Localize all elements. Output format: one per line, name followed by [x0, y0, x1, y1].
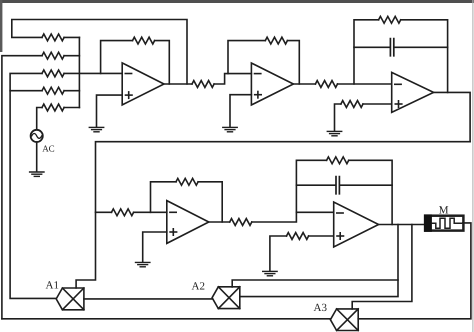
wire: U4 input lead [96, 211, 112, 213]
wire: AC source to R5 [37, 108, 42, 130]
wire: Rg5 to ground [270, 236, 287, 271]
resistor R3 [42, 70, 64, 77]
wire: U3 non-inverting lead [363, 103, 392, 105]
resistor Rf2 (U2 feedback) [265, 37, 287, 44]
svg-text:M: M [439, 204, 449, 216]
capacitor C2 [336, 177, 339, 194]
wire: U1 feedback tap [101, 41, 133, 74]
op-amp U1 [122, 63, 164, 105]
ground (U1) [89, 127, 103, 131]
frame top border [0, 0, 474, 3]
wire: U4 non-inverting input to ground [143, 232, 167, 262]
ground (U5) [263, 271, 277, 275]
wire: A2 top input [232, 280, 398, 287]
wire: U5 output down to A2 top and A2 right [240, 225, 398, 297]
wire: Rf4 to U4 output [198, 182, 222, 222]
op-amp U2 [251, 63, 293, 105]
wire: U1 non-inverting input to ground [97, 95, 123, 127]
ground (AC source) [30, 172, 44, 176]
ground (U4) [136, 262, 150, 266]
wire: R7 to U3 inverting input [338, 83, 392, 85]
wire: R2 left lead down left edge to bottom bus [2, 56, 42, 319]
wire: Rf1 to U1 output [155, 41, 170, 84]
op-amp U3 [392, 72, 434, 112]
wire: U1 output top feedback to R1 [12, 20, 187, 85]
ground (U3) [327, 131, 341, 135]
resistor Rg5 (U5 + input) [287, 233, 309, 240]
frame right border [472, 0, 474, 332]
wire: capacitor C2 branch right [340, 184, 392, 186]
svg-text:A2: A2 [192, 281, 205, 293]
resistor Rf3 (U3 feedback) [379, 16, 401, 23]
wire: U5 output down to A3 top input [352, 225, 412, 309]
resistor R7 (U2 to U3) [315, 81, 337, 88]
wire: R2 to summing bus [64, 55, 79, 57]
wire: capacitor C1 branch right [394, 46, 447, 48]
wire: U5 feedback left vertical [296, 160, 326, 212]
resistor Rg3 (U3 + input) [341, 101, 363, 108]
wire: Rg3 to ground [335, 104, 341, 131]
wire: U5 output to memristor [379, 224, 425, 226]
frame left border segment [0, 0, 2, 52]
resistor R1 [42, 34, 64, 41]
wire: long feedback line U3 output to U4 input (middle) [76, 142, 470, 288]
wire: U3 feedback left vertical [354, 20, 379, 84]
wire: U3 output to right then down [434, 92, 471, 141]
resistor R2 [42, 52, 64, 59]
wire: bottom bus from R2 to A3 [2, 318, 331, 320]
wire: AC source to ground [36, 142, 38, 172]
wire: R6 to U2 inverting input [214, 74, 251, 84]
wire: R4 to summing bus [64, 90, 79, 92]
resistor Rin4 (U4 input) [112, 209, 134, 216]
wire: R1 to summing bus [64, 36, 79, 38]
AC source V1 [31, 130, 43, 142]
wire: U2 non-inverting input to ground [230, 95, 251, 127]
wire: Rf2 to U2 output [287, 41, 299, 84]
wire: Rf3 to right vertical down to U3 output [401, 20, 448, 93]
wire: U4 output [209, 221, 230, 223]
wire: summing bus vertical [78, 37, 80, 107]
wire: R3 to U1 inverting input [64, 72, 122, 74]
wire: R3/R4 left leads to vertical going down to A1 [10, 73, 56, 298]
resistor R5 [42, 104, 64, 111]
resistor R4 [42, 87, 64, 94]
wire: U5 non-inverting lead [309, 235, 334, 237]
wire: U2 feedback tap [228, 41, 265, 74]
wire: Rf5 to right vertical down to U5 output [349, 160, 392, 224]
wire: Rin4 to U4 inverting input [134, 211, 167, 213]
svg-text:AC: AC [42, 144, 55, 154]
capacitor C1 [390, 39, 393, 56]
svg-text:A1: A1 [46, 280, 59, 292]
wire: R8 to U5 inverting input [252, 212, 334, 222]
wire: capacitor C1 branch left [354, 46, 390, 48]
ground (U2) [223, 127, 237, 131]
resistor Rf4 (U4 feedback) [176, 178, 198, 185]
resistor Rf1 (U1 feedback) [133, 37, 155, 44]
wire: R4 left lead [10, 90, 42, 92]
wire: memristor right to bottom right corner [358, 223, 471, 319]
resistor R8 (U4 to U5) [230, 219, 252, 226]
wire: R5 to summing bus [64, 107, 79, 109]
wire: A1 output to A2 [84, 298, 212, 300]
memristor M [425, 216, 463, 231]
op-amp U4 [167, 201, 209, 244]
resistor R6 (U1 to U2) [192, 81, 214, 88]
wire: U2 output [293, 83, 315, 85]
resistor Rf5 (U5 feedback) [327, 157, 349, 164]
wire: U1 output [164, 83, 192, 85]
wire: U4 feedback tap [151, 182, 177, 213]
wire: capacitor C2 branch left [296, 184, 335, 186]
svg-text:A3: A3 [314, 302, 328, 314]
op-amp U5 [334, 202, 379, 247]
